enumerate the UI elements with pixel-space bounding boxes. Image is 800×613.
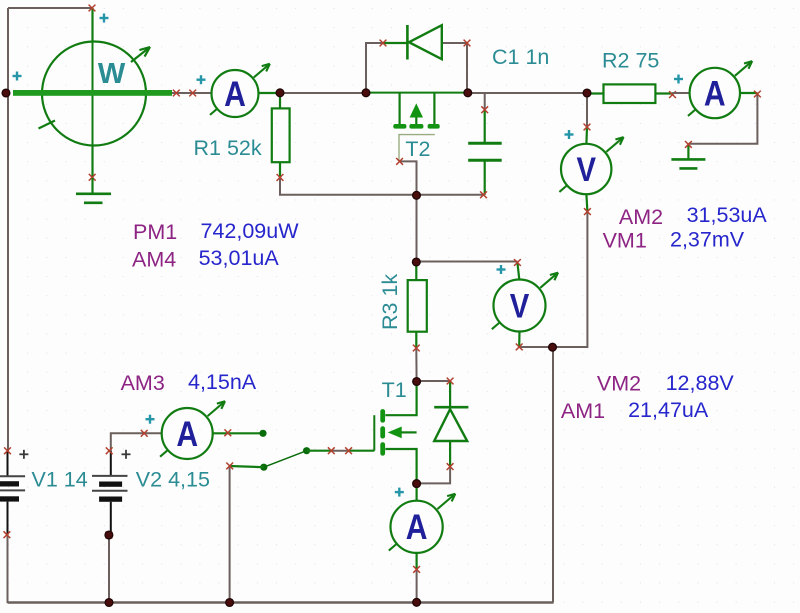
wire VM2 bottom to node <box>519 346 552 348</box>
svg-text:4,15nA: 4,15nA <box>188 370 257 394</box>
pin V2 top <box>106 447 113 454</box>
label T1 <box>382 378 407 402</box>
label R3 value <box>378 274 402 330</box>
pin R2 right <box>669 91 676 98</box>
node D2 right <box>464 89 472 97</box>
label + VM2 symbol <box>497 265 506 274</box>
wire AM3 left to V2 top <box>111 433 144 451</box>
label AM3 <box>121 371 165 395</box>
wire main bus T2 segment <box>366 92 468 94</box>
svg-text:21,47uA: 21,47uA <box>628 398 709 422</box>
wire V1 bottom to ground rail <box>7 535 9 603</box>
label + AM4 <box>197 75 206 84</box>
label C1 value <box>492 45 549 69</box>
pin ground top-right <box>685 141 692 148</box>
pin A2 right <box>754 91 761 98</box>
pin SW1 pole <box>226 463 233 470</box>
svg-text:A: A <box>704 73 726 113</box>
pin V1 top <box>4 447 11 454</box>
wire top-left from wattmeter to left rail <box>8 7 92 9</box>
pin AM3 left <box>141 430 148 437</box>
svg-text:A: A <box>224 74 246 114</box>
pin C1 top <box>481 106 488 113</box>
svg-text:31,53uA: 31,53uA <box>687 203 768 227</box>
capacitor C1 <box>468 110 502 195</box>
value AM1 <box>628 398 709 422</box>
svg-text:AM4: AM4 <box>132 247 176 271</box>
value VM1 <box>670 228 745 252</box>
wire switch pole down to ground rail <box>229 466 231 603</box>
node R3 top <box>412 258 420 266</box>
wire T1 node to diode D1 top <box>417 380 451 382</box>
node rail switch <box>226 599 234 607</box>
svg-text:T1: T1 <box>382 378 407 402</box>
ammeter AM3 symbol <box>144 401 263 459</box>
wire diode D1 bottom to source node <box>417 467 451 484</box>
ammeter AM2 symbol <box>673 61 758 118</box>
pin V1 bottom <box>4 531 11 538</box>
node rail V2 <box>105 599 113 607</box>
battery V1 <box>0 451 25 535</box>
pin SW1 out <box>328 447 335 454</box>
svg-text:742,09uW: 742,09uW <box>201 219 300 243</box>
wire A2 right down to ground <box>688 94 757 144</box>
svg-text:53,01uA: 53,01uA <box>199 246 280 270</box>
value AM2 <box>687 203 768 227</box>
resistor R3 <box>408 262 427 348</box>
ammeter AM1 symbol <box>389 483 455 569</box>
label + V2 <box>122 450 131 459</box>
label R1 value <box>194 136 262 160</box>
wire T2 bottom lead to node <box>400 161 417 194</box>
svg-text:VM2: VM2 <box>597 372 641 396</box>
wire main bus T2 node to R2 node <box>468 92 587 94</box>
label + wattmeter left <box>13 72 22 81</box>
pin R1 bottom <box>277 174 284 181</box>
resistor R1 <box>272 93 290 177</box>
label V2 value <box>136 468 210 492</box>
wire left rail vertical <box>7 8 9 451</box>
wire R3 node to VM2 top <box>417 261 518 263</box>
wire bottom-right vertical up to VM2 node <box>552 347 554 603</box>
ground below wattmeter <box>76 178 111 203</box>
svg-text:V1 14: V1 14 <box>32 468 88 492</box>
svg-text:A: A <box>176 414 198 454</box>
wire bottom ground rail <box>8 601 554 603</box>
label + AM1 symbol <box>395 488 404 497</box>
wire AM1 bottom to ground rail <box>416 569 418 602</box>
svg-text:AM2: AM2 <box>619 205 663 229</box>
wire main bus AM4 to diode-left node <box>280 92 366 94</box>
wire T2 node to C1 bottom <box>417 194 485 196</box>
pin AM3 right <box>224 429 231 436</box>
svg-text:C1 1n: C1 1n <box>492 45 549 69</box>
label AM2 <box>619 205 663 229</box>
wire C1 top stub <box>484 93 486 110</box>
diode D2 <box>383 25 442 60</box>
wire V2 bottom to ground rail <box>108 535 110 603</box>
node D2 left <box>362 89 370 97</box>
label V1 value <box>32 468 88 492</box>
wire R1 bottom to T2 node <box>280 177 417 194</box>
label + V1 <box>19 450 28 459</box>
wire node under T2 down to R3 node <box>416 195 418 262</box>
svg-text:V2 4,15: V2 4,15 <box>136 468 210 492</box>
node left-bus <box>2 89 10 97</box>
label AM1 <box>561 399 605 423</box>
value AM4 <box>199 246 280 270</box>
svg-text:A: A <box>406 507 428 547</box>
pin AM4 left <box>189 90 196 97</box>
battery V2 <box>92 451 128 535</box>
wire diode D2 left leg <box>366 43 383 93</box>
pin wattmeter right <box>173 90 180 97</box>
pin R3 bottom <box>413 345 420 352</box>
node under T2 <box>413 191 421 199</box>
svg-text:T2: T2 <box>405 137 430 161</box>
ground top-right <box>671 144 705 168</box>
pin D2 right <box>464 40 471 47</box>
value VM2 <box>666 371 735 395</box>
wire diode D2 right leg <box>442 43 467 93</box>
label VM2 <box>597 372 641 396</box>
wire switch to T1 gate <box>331 450 348 452</box>
node T1 drain <box>413 378 421 386</box>
pin wattmeter bottom <box>89 174 96 181</box>
value AM3 <box>188 370 257 394</box>
pin C1 bottom <box>480 191 487 198</box>
node VM2 bottom <box>549 343 557 351</box>
wire VM1 bottom down-left to node <box>553 212 588 347</box>
wire R3 bottom to T1 drain node <box>415 348 417 382</box>
pin T1 gate <box>345 447 352 454</box>
pin T2 bottom <box>396 158 403 165</box>
svg-text:VM1: VM1 <box>603 228 647 252</box>
label + AM3 symbol <box>146 415 155 424</box>
svg-text:R1 52k: R1 52k <box>194 136 262 160</box>
svg-text:12,88V: 12,88V <box>666 371 735 395</box>
svg-text:AM3: AM3 <box>121 371 165 395</box>
resistor R2 <box>587 84 673 103</box>
node R1 top <box>276 89 284 97</box>
label PM1 <box>133 220 177 244</box>
label R2 value <box>602 49 659 73</box>
label AM4 <box>132 247 176 271</box>
svg-text:W: W <box>98 58 126 90</box>
voltmeter VM1 symbol <box>559 93 623 212</box>
label T2 <box>405 137 430 161</box>
svg-text:R3 1k: R3 1k <box>378 274 402 330</box>
label VM1 <box>603 228 647 252</box>
pin V2 bottom <box>106 532 113 539</box>
svg-text:V: V <box>576 150 595 189</box>
wattmeter PM1 <box>13 8 172 178</box>
diode D1 <box>434 381 468 467</box>
svg-text:R2 75: R2 75 <box>602 49 659 73</box>
ammeter AM4 <box>172 64 280 117</box>
node R2 left <box>583 89 591 97</box>
voltmeter VM2 symbol <box>492 263 558 348</box>
svg-text:V: V <box>510 286 529 325</box>
label + AM2 symbol <box>674 75 683 84</box>
svg-text:PM1: PM1 <box>133 220 177 244</box>
label + wattmeter top <box>100 14 109 23</box>
label + VM1 symbol <box>565 130 574 139</box>
svg-text:AM1: AM1 <box>561 399 605 423</box>
value PM1 <box>201 219 300 243</box>
pin VM2 bottom <box>516 344 523 351</box>
pin D1 bottom <box>447 463 454 470</box>
node V2 bottom pin <box>105 531 113 539</box>
svg-text:2,37mV: 2,37mV <box>670 228 745 252</box>
pin VM2 top <box>514 259 521 266</box>
pin AM1 bottom <box>413 566 420 573</box>
transistor T1 <box>349 382 417 484</box>
transistor T2 <box>393 93 439 161</box>
node T1 source <box>413 480 421 488</box>
pin VM1 top <box>584 124 591 131</box>
pin D1 top <box>447 378 454 385</box>
pin wattmeter top <box>89 5 96 12</box>
node rail AM1 <box>413 598 421 606</box>
pin VM1 bottom <box>584 208 591 215</box>
switch SW1 <box>230 430 332 471</box>
pin D2 left <box>380 40 387 47</box>
